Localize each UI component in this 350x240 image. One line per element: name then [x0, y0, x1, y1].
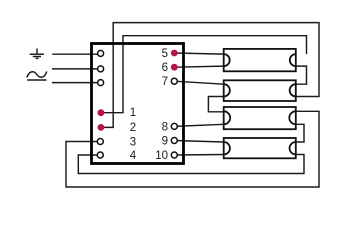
- wire pin10 to lamp4 bottom filament: [174, 154, 223, 157]
- pin 10 (open circle): [171, 152, 177, 158]
- svg-text:6: 6: [162, 62, 168, 74]
- ballast box U1: [92, 44, 184, 164]
- AC source: [27, 72, 47, 81]
- svg-text:7: 7: [162, 76, 168, 88]
- lamp LAMP4: [224, 138, 296, 158]
- pin N terminal (open circle): [98, 80, 104, 86]
- svg-text:5: 5: [162, 48, 168, 60]
- svg-text:4: 4: [130, 150, 137, 162]
- svg-text:8: 8: [162, 122, 168, 134]
- pin 6 (red dot): [171, 64, 178, 71]
- svg-text:2: 2: [130, 122, 136, 134]
- wire pin5 to lamp1 top filament: [174, 53, 223, 54]
- wire AC line 1 to pin: [52, 68, 101, 70]
- pin 1 (red dot): [98, 109, 105, 116]
- wire pin6 to lamp1 bottom filament: [174, 66, 223, 67]
- pin 7 (open circle): [171, 78, 177, 84]
- ground: [30, 49, 44, 59]
- pin 9 (open circle): [171, 138, 177, 144]
- svg-text:10: 10: [155, 150, 168, 162]
- lamp LAMP3: [224, 107, 296, 129]
- wire ground to pin G: [52, 53, 100, 55]
- pin 8 (open circle): [171, 123, 177, 129]
- wire lamp1 right-bottom to lamp2 right-top (series link): [296, 66, 307, 84]
- lamp LAMP2: [224, 80, 296, 101]
- pin 2 (red dot): [98, 124, 105, 131]
- wire pin7 to lamp2 top filament: [174, 81, 223, 84]
- pin L terminal (open circle): [98, 66, 104, 72]
- lamp LAMP1: [224, 49, 296, 71]
- wire lamp3 right-bottom to lamp4 right-top (series link): [296, 124, 304, 142]
- wire pin2 to top loop (outer): [101, 23, 319, 128]
- pin 4 (open circle): [97, 152, 103, 158]
- wire pin8 to lamp3 bottom filament: [174, 124, 223, 126]
- wire lamp2 left-bottom to lamp3 left-top (series link): [208, 97, 223, 112]
- svg-text:1: 1: [130, 107, 136, 119]
- wire pin9 to lamp4 top filament: [174, 141, 223, 143]
- pin G terminal (open circle): [98, 50, 104, 56]
- wire AC line 2 to pin: [52, 82, 101, 84]
- svg-text:9: 9: [162, 136, 168, 148]
- pin 5 (red dot): [171, 50, 178, 57]
- pin 3 (open circle): [97, 139, 103, 145]
- wire lamp4 right-bottom to pin4 bottom loop: [78, 155, 304, 174]
- wire pin1 to top loop (inner): [101, 36, 307, 113]
- svg-text:3: 3: [130, 137, 136, 149]
- wire lamp3 right-top to pin3 bottom loop: [66, 111, 319, 187]
